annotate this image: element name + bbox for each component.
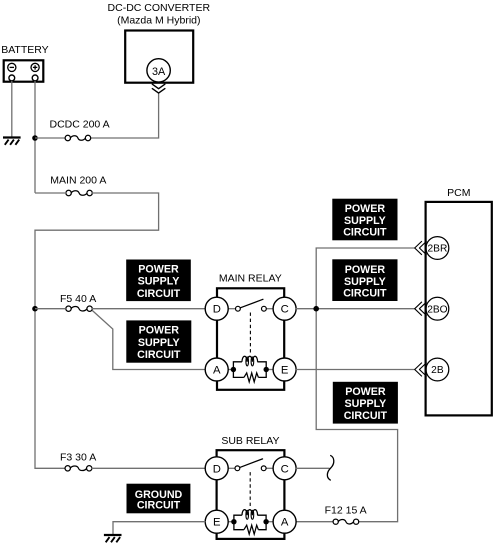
svg-text:DCDC 200 A: DCDC 200 A — [50, 119, 110, 131]
svg-text:MAIN 200 A: MAIN 200 A — [50, 174, 106, 186]
resistor K2 — [244, 525, 259, 534]
wire A to coil node — [228, 369, 232, 371]
terminal D K2 — [205, 457, 228, 480]
coil branch outline K1 — [233, 362, 266, 378]
switch blade K2 — [240, 459, 262, 467]
switch contact circles K2 — [235, 466, 266, 471]
pin 2BO — [426, 297, 449, 320]
connector break symbol — [327, 455, 333, 480]
svg-text:SUPPLY: SUPPLY — [344, 215, 386, 227]
node junction C net — [313, 306, 319, 312]
fuse F3 30 A — [65, 466, 92, 471]
switch contact circles K1 — [236, 306, 267, 311]
wire F5 diagonal branch to main relay A — [92, 310, 205, 369]
svg-text:3A: 3A — [152, 66, 166, 78]
node coil right K1 — [264, 367, 269, 372]
node junction battery/DCDC tap — [32, 135, 38, 141]
terminal A K1 — [205, 358, 228, 381]
wire battery negative to ground — [11, 81, 13, 137]
svg-text:POWER: POWER — [345, 386, 386, 398]
svg-text:C: C — [281, 304, 289, 316]
svg-text:CIRCUIT: CIRCUIT — [137, 349, 181, 361]
svg-text:DC-DC CONVERTER: DC-DC CONVERTER — [108, 2, 211, 14]
chevron connector 2BO — [415, 302, 427, 316]
svg-text:(Mazda M Hybrid): (Mazda M Hybrid) — [117, 14, 200, 26]
chevron connector 2BR — [415, 241, 427, 255]
wire switch contact to C K2 — [266, 467, 273, 469]
wire coil node to A K2 — [268, 521, 273, 523]
svg-text:BATTERY: BATTERY — [1, 44, 48, 56]
svg-text:CIRCUIT: CIRCUIT — [137, 288, 181, 300]
wire DCDC row — [35, 94, 159, 138]
svg-text:MAIN RELAY: MAIN RELAY — [219, 273, 282, 285]
svg-text:A: A — [213, 365, 221, 377]
svg-text:PCM: PCM — [447, 187, 470, 199]
terminal 3A circle — [147, 59, 170, 82]
svg-text:POWER: POWER — [345, 203, 386, 215]
black box POWER SUPPLY CIRCUIT right top — [332, 199, 397, 241]
svg-text:CIRCUIT: CIRCUIT — [343, 288, 387, 300]
relay K2 SUB RELAY box — [217, 450, 285, 539]
svg-text:2BO: 2BO — [427, 304, 447, 315]
svg-text:POWER: POWER — [345, 264, 386, 276]
svg-text:CIRCUIT: CIRCUIT — [344, 410, 388, 422]
battery B1 — [4, 60, 44, 81]
terminal D K1 — [205, 297, 228, 320]
svg-text:2BR: 2BR — [427, 244, 447, 255]
svg-text:E: E — [213, 517, 221, 529]
chevron connector 2B — [415, 363, 427, 377]
terminal E K1 — [273, 358, 296, 381]
wire C to PCM 2BO — [296, 308, 415, 310]
node coil left K2 — [231, 519, 236, 524]
node coil left K1 — [231, 367, 236, 372]
fuse DCDC 200 A — [65, 135, 91, 140]
black box POWER SUPPLY CIRCUIT right middle — [332, 259, 397, 301]
svg-text:F3 30 A: F3 30 A — [60, 451, 96, 463]
resistor K1 — [244, 373, 259, 382]
wire E to PCM 2B — [296, 369, 415, 371]
black box POWER SUPPLY CIRCUIT left lower — [126, 320, 191, 362]
svg-text:POWER: POWER — [138, 264, 179, 276]
wire battery positive down to MAIN fuse — [34, 81, 36, 193]
fuse F5 40 A — [66, 306, 93, 311]
svg-text:D: D — [213, 463, 221, 475]
terminal E K2 — [205, 510, 228, 533]
svg-text:SUPPLY: SUPPLY — [138, 337, 180, 349]
svg-text:C: C — [281, 463, 289, 475]
wire F3 to sub relay D — [92, 467, 206, 469]
dc-dc converter U1 box — [125, 31, 193, 83]
coil branch outline K2 — [234, 515, 266, 530]
svg-text:F5 40 A: F5 40 A — [60, 293, 96, 305]
dc-dc converter label — [108, 2, 211, 27]
inductor coil K2 — [242, 510, 258, 520]
terminal C K2 — [273, 457, 296, 480]
relay K1 MAIN RELAY box — [217, 288, 284, 390]
node coil right K2 — [263, 519, 268, 524]
svg-text:A: A — [281, 517, 289, 529]
ground G1 chassis — [3, 138, 21, 145]
inductor coil K1 — [242, 356, 258, 366]
svg-text:E: E — [281, 365, 289, 377]
fuse F12 15 A — [333, 519, 359, 524]
pin 2BR — [426, 237, 449, 260]
wire D to switch contact — [228, 308, 236, 310]
terminal A K2 — [273, 510, 296, 533]
svg-text:2B: 2B — [431, 365, 444, 376]
svg-text:D: D — [213, 304, 221, 316]
node junction F5 tap — [32, 306, 38, 312]
wire E to coil node K2 — [228, 521, 232, 523]
wire D to switch contact K2 — [228, 467, 235, 469]
svg-text:CIRCUIT: CIRCUIT — [137, 500, 181, 512]
pin 2B — [426, 358, 449, 381]
fuse MAIN 200 A — [66, 190, 92, 195]
dashed actuator line K2 — [249, 472, 251, 508]
black box POWER SUPPLY CIRCUIT right bottom — [333, 382, 398, 424]
switch blade K1 — [241, 299, 263, 307]
black box POWER SUPPLY CIRCUIT left upper — [126, 260, 191, 302]
ground G2 chassis — [104, 535, 122, 542]
svg-text:SUB RELAY: SUB RELAY — [221, 435, 279, 447]
PCM box U2 — [426, 202, 492, 416]
black box GROUND CIRCUIT — [127, 484, 191, 514]
wire net to 2BR and down to F12 — [296, 248, 415, 522]
wire MAIN fuse jog down left bus — [35, 193, 159, 468]
wire coil node to E — [269, 369, 274, 371]
dashed actuator line K1 — [249, 313, 251, 355]
wire F5 to main relay D — [35, 308, 206, 310]
svg-text:F12 15 A: F12 15 A — [325, 505, 367, 517]
svg-text:CIRCUIT: CIRCUIT — [343, 227, 387, 239]
wire E K2 to ground — [113, 522, 206, 534]
connector chevrons into converter — [152, 84, 165, 93]
svg-text:SUPPLY: SUPPLY — [345, 398, 387, 410]
svg-text:POWER: POWER — [139, 325, 180, 337]
svg-text:SUPPLY: SUPPLY — [344, 276, 386, 288]
wire switch contact to C — [266, 308, 273, 310]
wire C K2 to break connector — [296, 467, 330, 469]
svg-text:SUPPLY: SUPPLY — [138, 276, 180, 288]
terminal C K1 — [273, 297, 296, 320]
